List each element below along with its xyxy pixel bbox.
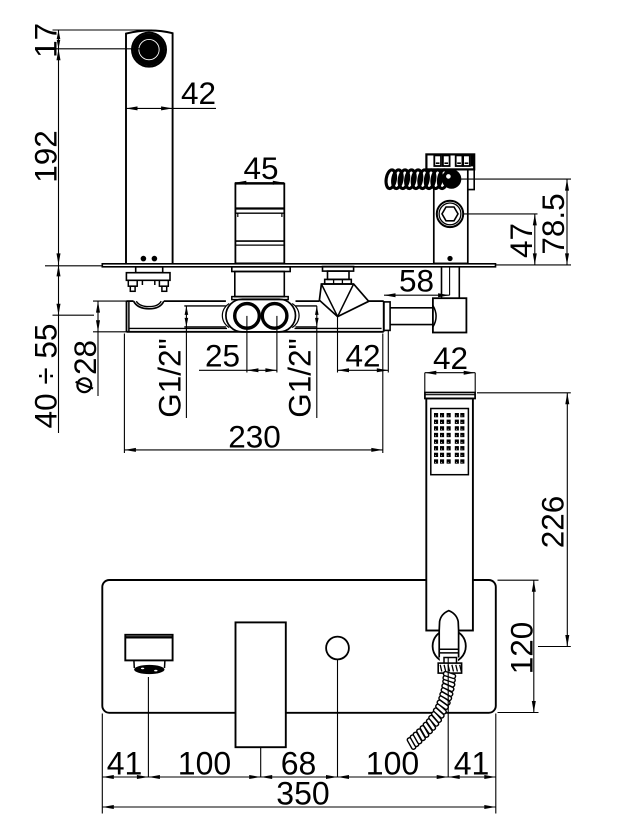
dim 78.5 arrows — [565, 179, 569, 265]
dim text 42 mid — [345, 338, 380, 374]
svg-text:45: 45 — [243, 150, 278, 186]
handle band nub left — [237, 213, 239, 217]
dim 42 mid line — [338, 369, 389, 371]
dim 78.5 line — [566, 179, 568, 265]
dim line 17-192-40/55 vertical — [58, 30, 60, 433]
deck plate (side view, edge-on) — [102, 264, 495, 267]
dim 120 extension bottom — [498, 712, 539, 714]
spray plate — [431, 409, 469, 475]
dim 78.5 extension top — [461, 178, 572, 180]
dim 230 arrows — [124, 448, 382, 452]
holder clamp lines — [439, 649, 458, 653]
svg-text:40 ÷ 55: 40 ÷ 55 — [28, 324, 64, 429]
dim 42 spout arrows — [126, 106, 173, 110]
dim 226 line — [566, 393, 568, 647]
handle lower column — [235, 272, 284, 297]
spout column (side view) — [126, 30, 173, 263]
front spout body — [125, 635, 172, 661]
dim 42 shower ext right — [474, 373, 476, 393]
svg-text:28: 28 — [67, 340, 103, 375]
hose corrugated bands — [407, 671, 456, 750]
spout collar under plate — [136, 267, 163, 273]
dim text 42 shower — [433, 340, 468, 376]
dim 226 extension top — [477, 392, 571, 394]
dim 45 arrows — [235, 181, 284, 185]
handle band nub right — [281, 213, 283, 217]
bracket body — [434, 169, 468, 263]
dim phi28 extension bottom — [93, 331, 127, 333]
dim 47 line — [534, 214, 536, 265]
spout outlet black disc — [140, 40, 158, 58]
dim row1 line — [102, 776, 496, 778]
hex screw inner circle — [439, 203, 461, 225]
handle column — [235, 184, 284, 264]
hose nut top — [444, 658, 457, 664]
dim text 40-55 — [28, 324, 64, 429]
mixer tube bottom edge — [127, 331, 384, 333]
svg-text:42: 42 — [345, 338, 380, 374]
dim text 192 — [28, 130, 64, 183]
dim phi28 arrows — [96, 301, 100, 332]
bracket slot 2 — [443, 155, 450, 166]
svg-text:G1/2": G1/2" — [152, 338, 188, 417]
svg-text:G1/2": G1/2" — [282, 338, 318, 417]
hand shower body — [426, 399, 473, 631]
pipe end arc — [433, 306, 436, 328]
dim 42 mid arrows — [338, 368, 389, 372]
inlet stadium inner line — [222, 304, 299, 328]
mixer tube top edge — [127, 300, 384, 302]
diverter cap — [323, 267, 354, 272]
svg-text:100: 100 — [366, 746, 419, 782]
diverter cone — [319, 284, 368, 317]
hand shower cap — [425, 393, 475, 399]
dim text 100 right — [366, 746, 419, 782]
spout flange — [126, 273, 170, 281]
dim phi28 extension top — [93, 300, 127, 302]
svg-text:120: 120 — [504, 622, 540, 675]
leader handle center — [260, 747, 262, 777]
dim 25 extension left — [246, 316, 248, 373]
dim 25 extension right — [276, 316, 278, 373]
svg-text:41: 41 — [454, 746, 490, 782]
ext plate right — [495, 714, 497, 814]
dim text 25 — [205, 338, 240, 374]
svg-text:42: 42 — [181, 75, 216, 111]
handle flange under plate — [232, 267, 290, 272]
dim text 45 — [243, 150, 278, 186]
mixer tube band bottom line — [184, 326, 317, 328]
bracket slot 1 — [434, 155, 441, 166]
dim text 68 — [281, 746, 317, 782]
ext plate left — [101, 714, 103, 814]
G half inch left leader — [185, 327, 187, 418]
mixer tube inner bottom line — [129, 327, 382, 329]
dim text G1/2 left — [152, 338, 188, 417]
dim 78.5 extension bottom — [496, 264, 572, 266]
dim 25 line — [199, 369, 277, 371]
pipe end cap — [384, 302, 390, 331]
bracket right step — [468, 169, 474, 189]
dim 120 arrows — [532, 580, 536, 712]
diverter collar — [325, 279, 352, 284]
dim 42 shower line — [425, 372, 475, 374]
spout elbow arc — [134, 301, 164, 309]
handle band 1 — [235, 209, 284, 214]
holder block (side) — [433, 298, 467, 332]
dim text G1/2 right — [282, 338, 318, 417]
holder strap sides — [439, 631, 458, 658]
handle band 2 — [235, 241, 284, 245]
dim 45 line — [235, 182, 284, 184]
front handle plate — [236, 622, 286, 747]
bracket slot 5 — [471, 155, 475, 166]
svg-text:192: 192 — [28, 130, 64, 183]
dim 192 arrows — [57, 49, 61, 265]
svg-text:42: 42 — [433, 340, 468, 376]
inlet circle left — [235, 304, 260, 329]
pipe to holder — [390, 308, 433, 325]
dim text 41 right — [454, 746, 490, 782]
dim text 230 — [228, 418, 281, 454]
bracket top block — [426, 154, 474, 169]
svg-text:78.5: 78.5 — [535, 193, 571, 254]
spout tab middle bar — [140, 280, 156, 285]
dim 42 shower ext left — [424, 373, 426, 393]
dim 17 extension bottom — [53, 48, 150, 50]
svg-text:100: 100 — [178, 746, 231, 782]
spout screw right — [152, 257, 156, 261]
bracket slot 4 — [463, 155, 470, 166]
bracket screw — [448, 257, 452, 261]
mixer tube right end — [383, 301, 385, 332]
dim 120 extension top — [498, 579, 539, 581]
mini arrows right — [315, 306, 319, 327]
front plate — [102, 580, 496, 713]
holder ring front — [433, 630, 466, 663]
dim 47 arrows — [533, 214, 537, 265]
dim 58 extension — [449, 267, 451, 295]
dim 42 spout line — [126, 107, 216, 109]
spout screw left — [141, 257, 145, 261]
svg-text:226: 226 — [535, 496, 571, 549]
spout tab right — [159, 280, 168, 286]
spout tab left — [128, 280, 137, 286]
front spout aerator face — [134, 665, 164, 674]
spout nub right — [162, 286, 167, 291]
inlet stadium outline — [226, 299, 296, 332]
dim text 17 — [28, 23, 64, 58]
dim 350 arrows — [102, 805, 496, 809]
G half inch right leader — [316, 327, 318, 418]
dim 42 mid extension right — [387, 331, 389, 373]
hex screw hexagon — [442, 207, 458, 221]
svg-text:47: 47 — [503, 223, 539, 258]
hex screw outer circle — [437, 201, 463, 227]
dim 40/55 extension tube axis — [53, 314, 95, 316]
svg-text:25: 25 — [205, 338, 240, 374]
dim 58 line — [384, 294, 450, 296]
holder hook teardrop — [439, 611, 458, 631]
mixer tube band top line — [184, 305, 317, 307]
hose outlet spring — [385, 169, 449, 189]
dim 42 mid extension left — [337, 317, 339, 373]
spout outlet ring dark — [136, 36, 163, 63]
leader diverter center — [337, 659, 339, 777]
bracket slot 3 — [456, 155, 463, 166]
dim 17 arrows — [57, 30, 61, 49]
dim 226 extension bottom — [538, 646, 571, 648]
dim phi28 line — [97, 301, 99, 396]
leader holder center — [447, 658, 449, 778]
spout nub left — [130, 286, 135, 291]
dim 230 extension right — [382, 334, 384, 454]
dim text 226 — [535, 496, 571, 549]
inlet circle right — [262, 304, 287, 329]
dim text 100 left — [178, 746, 231, 782]
svg-text:230: 230 — [228, 418, 281, 454]
dim row1 arrows — [102, 775, 496, 779]
dim 230 line — [124, 449, 382, 451]
dim 42 shower arrows — [425, 371, 475, 375]
dim 226 arrows — [565, 393, 569, 647]
holder strap white — [440, 629, 458, 663]
dim 17 extension top — [53, 29, 153, 31]
dim text 58 — [399, 263, 434, 299]
dim 40/55 arrows — [57, 265, 61, 315]
dim text 42 spout — [181, 75, 216, 111]
dim 350 line — [102, 806, 496, 808]
spray holes — [434, 413, 464, 464]
dim text 41 left — [107, 746, 143, 782]
leader spout center — [147, 677, 149, 777]
hose nut — [438, 663, 461, 673]
dim 58 arrows — [384, 293, 450, 297]
dim 230 extension left — [123, 334, 125, 454]
svg-text:58: 58 — [399, 263, 434, 299]
dim text phi28 — [67, 340, 103, 392]
spout outlet ring outer — [132, 33, 166, 67]
diverter stem — [328, 271, 350, 279]
svg-text:41: 41 — [107, 746, 143, 782]
mini arrows left — [185, 306, 189, 327]
front diverter knob — [326, 637, 349, 660]
hose outlet end — [442, 170, 461, 189]
dim 120 line — [533, 580, 535, 712]
dim 40/55 extension plate — [45, 265, 102, 267]
dim text 47 — [503, 223, 539, 258]
dim text 120 — [504, 622, 540, 675]
mixer tube left cap line — [128, 301, 130, 332]
dim text 350 — [276, 776, 329, 812]
holder neck — [442, 267, 460, 298]
mixer tube left end — [126, 301, 128, 332]
handle escutcheon — [232, 297, 288, 300]
svg-text:350: 350 — [276, 776, 329, 812]
dim text 78.5 — [535, 193, 571, 254]
front spout aerator sides — [134, 660, 165, 668]
dim 25 arrows — [247, 368, 277, 372]
dim 47 extension — [464, 213, 538, 215]
